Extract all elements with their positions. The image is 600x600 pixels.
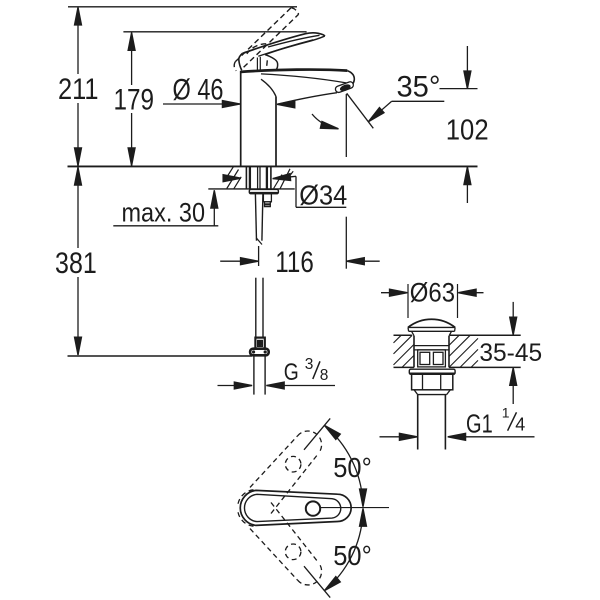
svg-text:50°: 50°	[333, 452, 372, 483]
svg-text:3: 3	[305, 356, 314, 373]
svg-text:116: 116	[275, 246, 314, 279]
svg-text:35°: 35°	[397, 71, 441, 104]
svg-text:179: 179	[114, 84, 155, 117]
svg-text:G: G	[284, 359, 299, 386]
svg-text:50°: 50°	[333, 540, 372, 571]
svg-text:381: 381	[55, 247, 97, 280]
svg-text:Ø34: Ø34	[299, 180, 347, 211]
svg-text:211: 211	[58, 73, 99, 106]
svg-text:102: 102	[446, 114, 489, 146]
svg-text:1: 1	[502, 405, 510, 421]
svg-text:max. 30: max. 30	[122, 198, 206, 228]
svg-text:8: 8	[320, 367, 329, 384]
svg-text:Ø 46: Ø 46	[173, 74, 224, 107]
svg-text:35-45: 35-45	[479, 339, 542, 367]
svg-text:Ø63: Ø63	[410, 278, 455, 308]
svg-text:4: 4	[515, 415, 525, 435]
svg-text:G1: G1	[466, 408, 493, 438]
